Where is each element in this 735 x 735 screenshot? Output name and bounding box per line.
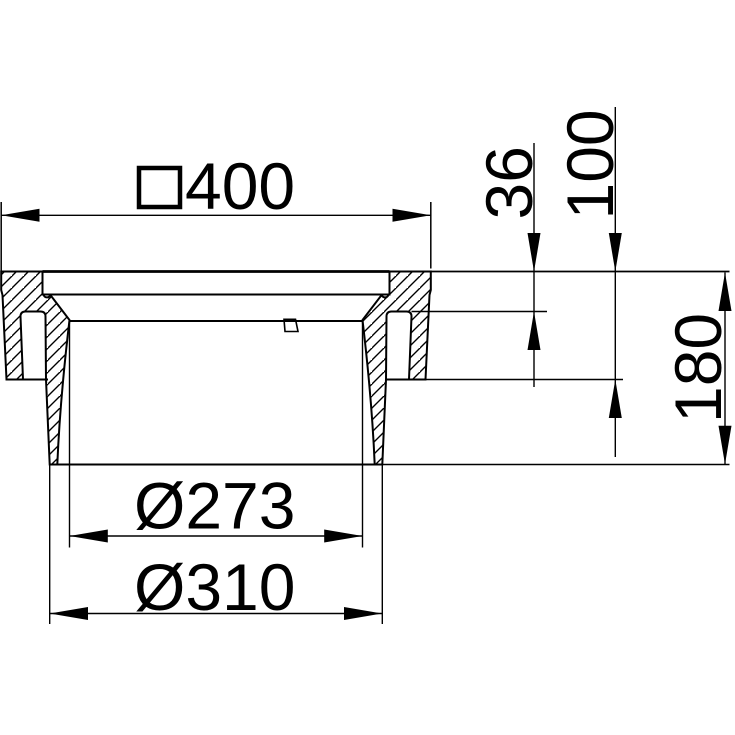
svg-text:Ø273: Ø273: [134, 469, 295, 543]
bottom extension to 180 dim: [383, 464, 730, 466]
frame right section (hatched): [363, 272, 431, 465]
100-level extension line: [426, 379, 624, 381]
36-level extension line: [412, 311, 548, 313]
dim 400: left extension line: [0, 202, 2, 272]
underside line left: [7, 379, 49, 381]
dim 400: right extension line: [430, 202, 432, 269]
svg-text:36: 36: [472, 146, 546, 219]
dim 400: left arrow: [1, 209, 39, 222]
dim 100: bottom arrow: [609, 380, 622, 419]
dim 100: dimension line: [614, 107, 616, 457]
dim 310: dimension line: [50, 613, 383, 615]
svg-text:100: 100: [553, 109, 627, 219]
seat line Ø273 bore top: [70, 320, 363, 322]
dim 273: dimension line: [70, 535, 363, 537]
dim 180: dimension line: [724, 273, 726, 465]
dim 273: left arrow: [70, 530, 108, 543]
dim 36: dimension line: [533, 143, 535, 387]
dim 310: left arrow: [50, 607, 88, 620]
dim 310: right arrow: [344, 607, 382, 620]
dim 273: right extension line: [362, 321, 364, 548]
funnel bottom rim line: [50, 464, 383, 466]
dim 310: right extension line: [381, 465, 383, 625]
dim 100: top arrow: [609, 233, 622, 272]
frame left section (hatched): [1, 272, 69, 465]
dim 36: bottom arrow: [528, 312, 541, 351]
dim 400: dimension line: [1, 214, 431, 216]
dim 36: top arrow: [528, 233, 541, 272]
dim 400: right arrow: [393, 209, 431, 222]
cover top edge (thicker): [43, 270, 390, 273]
svg-text:180: 180: [661, 313, 735, 423]
top surface line: [1, 271, 729, 273]
dim 400: square symbol: [139, 168, 180, 207]
dim 180: bottom arrow: [719, 426, 732, 465]
dim 273: right arrow: [324, 530, 362, 543]
flag symbol on seat line: [284, 319, 298, 331]
underside line right: [386, 379, 426, 381]
dim 273: left extension line: [69, 321, 71, 548]
svg-text:Ø310: Ø310: [134, 550, 295, 624]
svg-text:400: 400: [185, 149, 295, 223]
dim 310: left extension line: [49, 465, 51, 625]
cover plate: [43, 272, 390, 295]
dim 180: top arrow: [719, 273, 732, 312]
